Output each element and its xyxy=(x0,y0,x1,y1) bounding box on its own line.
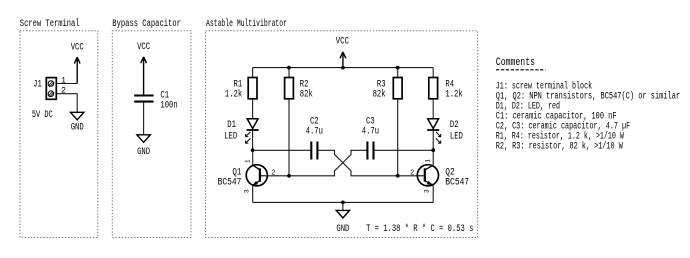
capacitor C1 xyxy=(134,96,153,102)
dashed sheet box 1 xyxy=(20,31,98,238)
node B junction (Q2 collector / D2 / C3) xyxy=(431,148,435,152)
dashed sheet box 3 xyxy=(206,31,478,238)
transistor Q2 BC547 xyxy=(417,165,438,186)
svg-text:GND: GND xyxy=(71,122,84,133)
svg-text:82k: 82k xyxy=(373,88,386,99)
wire J1 pin2 to GND xyxy=(56,94,77,113)
wire R4 to D2 xyxy=(432,99,434,119)
wire Q1 base to crossover to C3 xyxy=(268,150,367,176)
junction R3 / Q2 base xyxy=(396,174,400,178)
wire rail to R4 xyxy=(432,68,434,78)
svg-text:J1: J1 xyxy=(33,78,42,89)
VCC symbol (box2) xyxy=(137,41,150,94)
svg-text:1.2k: 1.2k xyxy=(445,88,462,99)
svg-text:4.7u: 4.7u xyxy=(306,126,323,137)
junction emitter rail / GND xyxy=(341,201,345,205)
svg-text:5V DC: 5V DC xyxy=(32,109,53,120)
wire Q1 emitter xyxy=(252,185,254,202)
svg-text:100n: 100n xyxy=(160,100,177,111)
svg-text:Comments: Comments xyxy=(496,57,535,69)
svg-text:2: 2 xyxy=(410,169,414,177)
svg-text:3: 3 xyxy=(244,189,251,193)
svg-text:Astable Multivibrator: Astable Multivibrator xyxy=(206,18,287,29)
svg-text:LED: LED xyxy=(450,130,463,141)
capacitor C2 xyxy=(311,142,317,160)
junction on rail at R2 xyxy=(287,66,291,70)
svg-text:4.7u: 4.7u xyxy=(362,126,379,137)
wire rail to GND xyxy=(342,202,344,210)
dashed sheet box 2 xyxy=(112,31,191,238)
svg-text:D1: D1 xyxy=(227,119,236,130)
svg-text:82k: 82k xyxy=(300,88,313,99)
svg-text:BC547: BC547 xyxy=(218,176,242,187)
ground symbol (box2) xyxy=(137,135,150,157)
wire D2 to collector node B xyxy=(432,130,434,150)
svg-text:2: 2 xyxy=(271,169,275,177)
LED D2 xyxy=(427,119,441,144)
svg-text:BC547: BC547 xyxy=(445,176,469,187)
wire R2 down to Q1 base line xyxy=(288,99,290,176)
resistor R1 xyxy=(248,78,257,99)
wire D1 to collector node A xyxy=(252,130,254,150)
svg-text:GND: GND xyxy=(137,146,150,157)
ground symbol (box1) xyxy=(71,112,84,132)
wire bottom emitter rail xyxy=(253,201,434,203)
wire R3 down to Q2 base line xyxy=(397,99,399,176)
svg-text:1.2k: 1.2k xyxy=(225,88,242,99)
svg-text:3: 3 xyxy=(423,189,430,193)
wire R1 to D1 xyxy=(252,99,254,119)
transistor Q1 BC547 xyxy=(246,165,267,186)
wire C3 to node B xyxy=(375,149,434,151)
connector J1 screw terminal block xyxy=(46,78,56,100)
resistor R4 xyxy=(429,78,438,99)
wire C1 bottom to GND xyxy=(143,103,145,135)
svg-text:VCC: VCC xyxy=(137,41,150,52)
LED D1 xyxy=(246,119,259,144)
wire J1 pin1 to VCC xyxy=(56,83,77,85)
wire rail to R2 xyxy=(288,68,290,78)
svg-text:GND: GND xyxy=(336,223,349,234)
svg-text:VCC: VCC xyxy=(71,41,84,52)
comments heading underline xyxy=(496,69,546,71)
wire rail to R1 xyxy=(252,68,254,78)
svg-text:LED: LED xyxy=(224,130,237,141)
wire Q2 collector xyxy=(432,150,434,165)
svg-text:1: 1 xyxy=(244,159,251,163)
wire Q1 collector xyxy=(252,150,254,165)
junction on rail at R3 xyxy=(396,66,400,70)
svg-text:Screw Terminal: Screw Terminal xyxy=(20,18,80,29)
node A junction (Q1 collector / D1 / C2) xyxy=(251,148,255,152)
svg-text:D2: D2 xyxy=(450,119,459,130)
svg-text:Bypass Capacitor: Bypass Capacitor xyxy=(112,18,181,29)
resistor R3 xyxy=(393,78,402,99)
svg-text:1: 1 xyxy=(61,76,66,85)
wire C2 to crossover to Q2 base xyxy=(318,150,417,176)
VCC symbol (box3) xyxy=(336,36,349,68)
svg-text:T = 1.38 * R * C = 0.53 s: T = 1.38 * R * C = 0.53 s xyxy=(366,223,473,234)
ground symbol (box3) xyxy=(336,210,349,234)
resistor R2 xyxy=(285,78,294,99)
VCC symbol (box1) xyxy=(71,41,84,83)
junction R2 / Q1 base xyxy=(287,174,291,178)
wire rail to R3 xyxy=(397,68,399,78)
junction on rail at VCC xyxy=(341,66,345,70)
wire top VCC rail xyxy=(253,67,434,69)
wire Q2 emitter xyxy=(432,185,434,202)
svg-text:1: 1 xyxy=(425,159,432,163)
svg-text:VCC: VCC xyxy=(336,36,349,47)
wire node A to C2 xyxy=(253,149,311,151)
svg-text:R2, R3: resistor, 82 k, >1/10: R2, R3: resistor, 82 k, >1/10 W xyxy=(496,141,623,152)
capacitor C3 xyxy=(367,142,373,160)
